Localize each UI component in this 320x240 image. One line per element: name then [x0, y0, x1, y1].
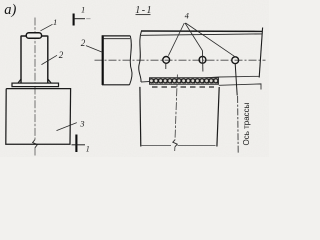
hole 1: [163, 57, 170, 64]
weld flare left: [18, 79, 22, 83]
column stub (item 2) left bold edge: [102, 35, 104, 85]
right shelf line: [219, 84, 261, 90]
svg-text:4: 4: [185, 10, 190, 20]
support centerline: [175, 75, 177, 140]
column top edge: [21, 35, 48, 37]
svg-text:1: 1: [81, 4, 85, 14]
leader to label 2: [86, 46, 102, 53]
route axis dash-dot line: [237, 96, 240, 154]
leader 4 to hole 2: [185, 23, 202, 50]
svg-text:а): а): [4, 2, 16, 18]
weld flare right: [48, 79, 52, 83]
svg-text:2: 2: [81, 38, 86, 48]
column stub top inner flange line: [102, 38, 130, 40]
support centerline tail: [174, 147, 176, 151]
section mark bottom: thick stroke: [75, 135, 77, 153]
beam right end edge: [259, 28, 262, 78]
welded joint hatched band: [150, 78, 219, 85]
foundation block item 3: [6, 89, 71, 145]
section mark bottom: arrow tick: [72, 144, 86, 146]
beam top edge: [141, 30, 262, 32]
hole 1 lower tick: [165, 63, 167, 69]
section title underline: [136, 14, 151, 16]
column centerline: [34, 18, 36, 140]
column stub break wavy edge: [130, 36, 133, 85]
svg-text:Ось трассы: Ось трассы: [242, 102, 251, 145]
support centerline break zigzag: [173, 140, 178, 147]
section mark top: thick stroke: [73, 14, 75, 26]
support bottom faint line right part: [178, 144, 216, 146]
svg-text:1: 1: [86, 145, 90, 154]
leader 4 to hole 1: [168, 23, 184, 56]
centerline lower tail: [34, 148, 36, 156]
support right edge: [217, 87, 219, 147]
beam bottom edge: [141, 76, 260, 82]
hole 2: [199, 56, 206, 63]
centerline break zigzag: [33, 140, 38, 148]
column stub bottom edge: [102, 84, 130, 86]
base plate: [12, 83, 59, 87]
hidden dashed line under band: [152, 86, 214, 88]
leader to label 3: [57, 123, 77, 131]
svg-text:1: 1: [53, 17, 57, 27]
support left edge: [139, 87, 142, 147]
leader to label 1: [41, 24, 53, 31]
cap plate item 1: [26, 33, 41, 39]
beam top inner flange line: [141, 34, 262, 35]
section mark top: arrow tick: [74, 18, 85, 20]
hole 2 vertical centerline: [201, 50, 204, 71]
hole 3: [232, 57, 239, 64]
beam left break wavy edge: [139, 31, 142, 82]
support bottom faint line: [142, 144, 172, 146]
column stub top edge: [102, 35, 131, 37]
column left edge: [20, 36, 22, 84]
svg-text:2: 2: [59, 50, 64, 60]
leader to label 2: [42, 55, 58, 64]
paper background: [0, 0, 269, 157]
section mark top: tick faint extension: [86, 18, 90, 20]
leader 4 to hole 3: [186, 23, 236, 57]
holes centerline (horizontal dash-dot): [95, 59, 266, 61]
svg-text:3: 3: [79, 119, 84, 129]
route axis solid tail below hole 3: [235, 64, 237, 96]
column right edge: [47, 36, 49, 84]
